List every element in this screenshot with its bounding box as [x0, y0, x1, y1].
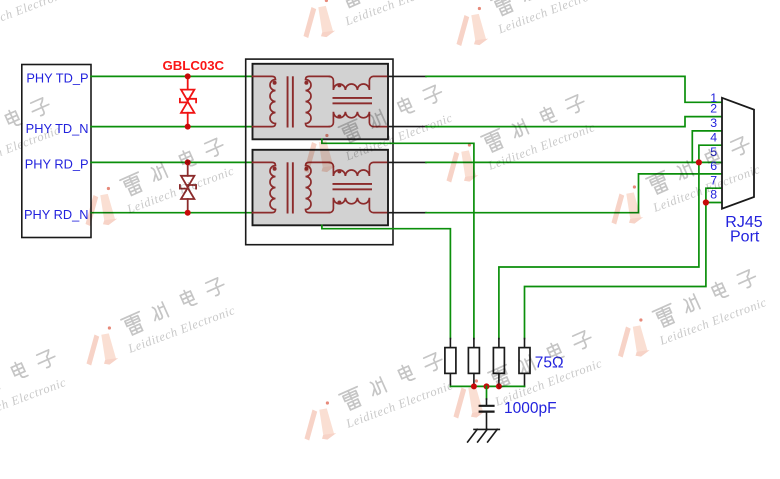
- RJ45 connector J1 body: [722, 98, 754, 209]
- wire T1 center tap to R2: [322, 139, 474, 338]
- TVS diode D2 (bidirectional, dark red): [180, 162, 196, 212]
- PHY block U1: [22, 65, 91, 238]
- resistor R4 75ohm: [524, 339, 526, 387]
- common-mode choke bottom winding: [329, 112, 388, 127]
- wire to RJ45 pin6: [426, 174, 722, 213]
- svg-text:PHY TD_P: PHY TD_P: [26, 71, 88, 86]
- junction dot D1 bottom: [185, 124, 191, 130]
- wire RJ45 pin3 drop: [692, 131, 722, 163]
- wire RX+ long run to pin5 row: [426, 161, 722, 163]
- svg-text:GBLC03C: GBLC03C: [163, 58, 225, 73]
- resistor R2 75ohm: [473, 339, 475, 387]
- transformer core bars: [287, 76, 372, 127]
- svg-text:PHY RD_N: PHY RD_N: [24, 207, 88, 222]
- secondary winding: [306, 76, 330, 126]
- svg-text:2: 2: [710, 102, 717, 116]
- resistor R1 75ohm: [449, 339, 451, 387]
- wire to RJ45 pin2: [426, 117, 722, 127]
- svg-text:75Ω: 75Ω: [535, 355, 564, 372]
- wire pin7/8 junction down to R4: [525, 203, 706, 339]
- common-mode choke top winding: [329, 76, 388, 90]
- junction dot D1 top: [185, 73, 191, 79]
- wire T1 secondary bottom stub (black): [388, 126, 426, 128]
- ground symbol: [468, 429, 500, 442]
- resistor R3 75ohm: [498, 339, 500, 387]
- capacitor C1 1000pF: [486, 399, 488, 405]
- magnetics module outer box: [246, 59, 393, 245]
- wire net RD_N from PHY to transformer: [91, 212, 253, 214]
- wire pin4/5 junction down to R3: [499, 162, 699, 338]
- junction dot pin8: [703, 199, 709, 205]
- junction dot bus R2: [471, 383, 477, 389]
- wire net TD_P from PHY to transformer: [91, 75, 253, 77]
- wire RJ45 pin8 stub: [706, 202, 722, 204]
- wire T1 secondary top stub (black): [388, 75, 426, 77]
- wire T2 secondary bottom stub (black): [388, 212, 426, 214]
- wire termination bus: [450, 385, 524, 387]
- wire T2 center tap to R1: [322, 225, 451, 338]
- transformer T2 (RX): [253, 150, 389, 226]
- junction dot D2 bottom: [185, 210, 191, 216]
- junction dot bus R3: [496, 383, 502, 389]
- phase dots: [273, 81, 342, 119]
- wire net TD_N from PHY to transformer: [91, 126, 253, 128]
- primary winding: [253, 76, 276, 126]
- junction dot bus center: [484, 383, 490, 389]
- svg-text:Port: Port: [730, 229, 760, 246]
- transformer T1 (TX): [253, 64, 389, 140]
- junction dot pin5: [696, 159, 702, 165]
- wire RJ45 pin4 stub: [699, 145, 722, 162]
- wire net RD_P from PHY to transformer: [91, 161, 253, 163]
- wire T2 secondary top stub (black): [388, 161, 426, 163]
- svg-text:3: 3: [710, 116, 717, 130]
- wire bus to capacitor: [486, 386, 488, 399]
- wire to RJ45 pin1: [426, 76, 722, 102]
- wire RJ45 pin7 stub: [706, 188, 722, 202]
- svg-text:4: 4: [710, 130, 717, 144]
- svg-text:PHY RD_P: PHY RD_P: [25, 157, 89, 172]
- junction dot D2 top: [185, 159, 191, 165]
- TVS diode D1 (bidirectional, red): [180, 76, 196, 126]
